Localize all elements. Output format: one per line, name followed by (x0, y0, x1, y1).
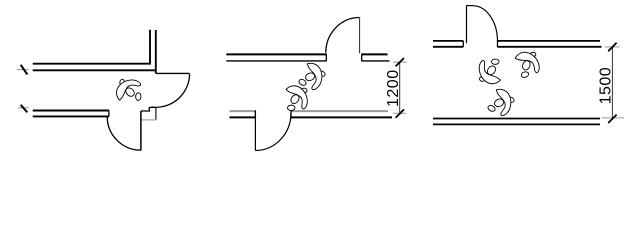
top wall right segment (362, 54, 390, 62)
person P3 (278, 80, 316, 117)
door D3 leaf (359, 18, 361, 54)
break symbol lower wall (18, 105, 29, 113)
bottom wall left segment (230, 110, 256, 118)
door D2 leaf (open, vertical) (140, 111, 142, 150)
wall lower top face (33, 110, 109, 112)
svg-text:1200: 1200 (385, 69, 402, 107)
door D2 swing arc (107, 117, 141, 151)
top wall left segment (226, 54, 326, 62)
door D3 swing arc (326, 18, 360, 53)
door D5 swing arc (473, 6, 498, 42)
person P1 (111, 72, 147, 109)
door D5 leaf (466, 6, 468, 44)
person P5 (508, 45, 547, 84)
wall upper bottom face (33, 69, 156, 71)
wall lower bottom face (33, 115, 109, 117)
dimension line 1500 (597, 43, 624, 123)
bottom wall right segment (291, 110, 392, 118)
svg-text:1500: 1500 (597, 67, 614, 105)
person P4 (471, 53, 509, 90)
door D4 leaf (254, 112, 256, 151)
door D4 swing arc (255, 113, 291, 151)
door D1 swing arc (141, 74, 190, 112)
wall lower end cap (108, 111, 110, 117)
break symbol upper wall (17, 65, 29, 75)
wall upper (horizontal top face + vertical corner) (33, 30, 150, 64)
dimension line 1200 (385, 58, 407, 118)
bottom wall (433, 119, 600, 125)
person P2 (298, 63, 326, 89)
top wall left segment (433, 41, 463, 47)
door D1 jamb block (155, 108, 157, 120)
top wall right segment (498, 41, 602, 47)
door D1 leaf (open, horizontal) (156, 72, 190, 74)
door D5 leaf top tick (467, 5, 474, 7)
person P6 (487, 89, 515, 115)
wall vertical right face (155, 30, 157, 73)
